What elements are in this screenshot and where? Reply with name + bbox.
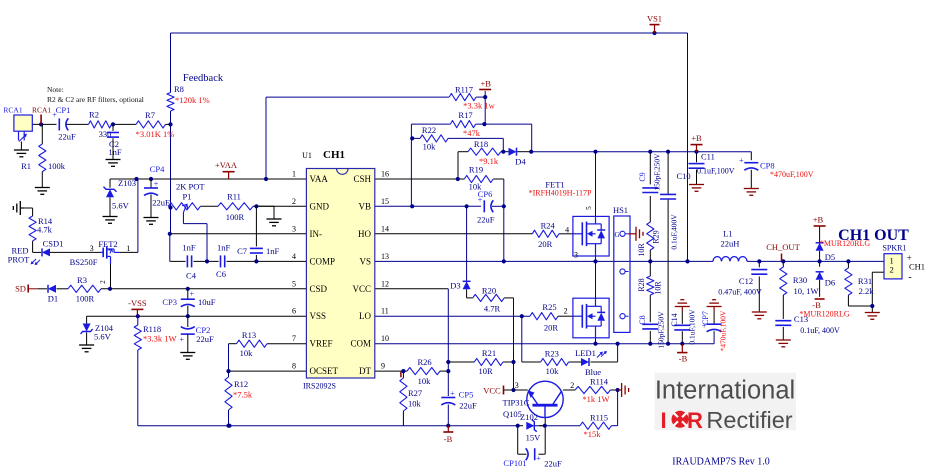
- wire FET2 drain to CSD row: [110, 264, 112, 289]
- wire +B flag vertical at R117: [484, 91, 486, 124]
- svg-text:R1: R1: [21, 161, 31, 171]
- svg-text:R28: R28: [637, 278, 646, 291]
- svg-text:2: 2: [292, 197, 296, 206]
- svg-text:2: 2: [570, 381, 574, 390]
- svg-text:R2: R2: [89, 110, 99, 120]
- svg-text:R118: R118: [143, 324, 161, 334]
- wire R114 right junction chassis R115: [610, 390, 617, 426]
- power flag -VSS: [128, 298, 147, 316]
- transistor FET1 lower MOSFET: [573, 298, 609, 338]
- power flag VCC: [483, 386, 503, 396]
- wire R118 VSS to rail: [137, 316, 139, 426]
- wire R17 row: [411, 124, 531, 206]
- svg-text:10k: 10k: [408, 399, 422, 409]
- svg-text:7: 7: [292, 334, 296, 343]
- svg-text:Feedback: Feedback: [183, 73, 224, 84]
- svg-text:+: +: [739, 156, 744, 165]
- wire VREF row R13: [229, 344, 307, 371]
- svg-text:20R: 20R: [538, 239, 553, 249]
- wire R28 C8 snubber chain: [649, 261, 651, 343]
- note RF filters text: [47, 85, 144, 104]
- svg-text:R20: R20: [482, 286, 496, 296]
- svg-text:R12: R12: [234, 379, 248, 389]
- svg-text:10R: 10R: [479, 366, 494, 376]
- resistor R27 10k: [400, 378, 422, 411]
- diode D4: [509, 148, 527, 167]
- svg-text:CH1: CH1: [909, 262, 925, 272]
- svg-text:R19: R19: [469, 165, 483, 175]
- svg-text:R22: R22: [422, 125, 436, 135]
- svg-text:Rectifier: Rectifier: [706, 407, 792, 433]
- svg-text:4.7k: 4.7k: [37, 225, 53, 235]
- svg-text:10, 1W: 10, 1W: [793, 286, 818, 296]
- svg-text:R114: R114: [590, 377, 609, 387]
- label U1 CH1: [302, 149, 345, 391]
- wire pot wiper to COMP row: [183, 213, 207, 262]
- wire CP5 branch on VCC vertical: [447, 362, 449, 426]
- resistor R13 10k: [237, 330, 268, 358]
- svg-text:CP7: CP7: [701, 311, 710, 325]
- wire VB to D3 vertical: [467, 206, 473, 298]
- svg-text:DT: DT: [359, 366, 371, 376]
- chassis ground at HS1: [629, 227, 644, 241]
- svg-text:R27: R27: [408, 388, 422, 398]
- svg-text:100R: 100R: [76, 294, 95, 304]
- wire CSD1 FET2 row: [33, 179, 138, 252]
- svg-text:+B: +B: [813, 215, 824, 225]
- resistor R3 100R: [68, 275, 101, 304]
- svg-text:+: +: [190, 290, 195, 299]
- svg-text:1nF: 1nF: [182, 243, 196, 253]
- inductor L1 22uH: [713, 229, 747, 262]
- zener Z104 5.6V: [81, 316, 114, 344]
- potentiometer P1 2K POT: [168, 182, 205, 213]
- label Feedback: [183, 73, 224, 84]
- svg-text:Z102: Z102: [520, 412, 538, 422]
- wire R27 branch: [401, 371, 404, 426]
- svg-text:*1k 1W: *1k 1W: [582, 394, 609, 404]
- capacitor C7 1nF: [237, 246, 279, 256]
- power flag +B at D5: [813, 215, 826, 227]
- svg-text:R: R: [687, 408, 703, 433]
- resistor R18 9.1k: [468, 139, 501, 166]
- svg-text:R18: R18: [474, 139, 488, 149]
- svg-text:HS1: HS1: [613, 205, 628, 215]
- svg-text:2: 2: [889, 264, 893, 274]
- svg-text:TIP31C: TIP31C: [503, 398, 530, 408]
- svg-text:BS250F: BS250F: [70, 257, 98, 267]
- svg-text:1: 1: [292, 170, 296, 179]
- chassis ground at R14: [13, 201, 24, 215]
- wire D5 D6 clamp branch: [819, 226, 821, 297]
- resistor R22 10k: [420, 125, 448, 152]
- resistor R17 47k: [450, 110, 480, 138]
- wire R20 to base vertical: [504, 298, 513, 390]
- svg-text:I: I: [660, 408, 666, 433]
- wire Z102 right lead: [539, 425, 545, 427]
- wire DT row pin9 R26: [375, 370, 449, 372]
- svg-text:15V: 15V: [526, 433, 542, 443]
- power flag +B at R117: [479, 79, 491, 90]
- capacitor CP4 22uF: [144, 164, 170, 217]
- resistor R19 10k: [464, 165, 493, 192]
- svg-text:FET2: FET2: [98, 239, 117, 249]
- svg-text:CH_OUT: CH_OUT: [766, 242, 800, 252]
- svg-text:VSS: VSS: [310, 311, 327, 321]
- svg-text:10k: 10k: [423, 142, 437, 152]
- svg-text:IRS2092S: IRS2092S: [303, 382, 336, 391]
- capacitor CP2 22uF: [180, 316, 214, 352]
- svg-text:R30: R30: [793, 275, 807, 285]
- svg-text:1nF: 1nF: [266, 246, 280, 256]
- capacitor CP6 22uF bootstrap: [477, 189, 495, 225]
- ground at R1: [35, 188, 50, 195]
- svg-text:+: +: [180, 335, 185, 344]
- svg-text:22uF: 22uF: [58, 132, 76, 142]
- wire C9 R29 snubber chain: [649, 152, 651, 262]
- svg-text:CP8: CP8: [760, 161, 775, 171]
- wire CP101 loop: [518, 426, 546, 455]
- svg-text:R13: R13: [242, 330, 256, 340]
- wire R8 feedback vertical to IN- and COMP: [170, 111, 186, 261]
- svg-text:C10: C10: [677, 171, 691, 181]
- svg-text:VB: VB: [358, 201, 371, 211]
- resistor R20 4.7R: [473, 286, 505, 314]
- svg-text:PROT: PROT: [8, 255, 31, 265]
- svg-text:3: 3: [515, 381, 519, 390]
- svg-text:2: 2: [99, 280, 107, 284]
- chassis ground at R114: [618, 383, 629, 397]
- svg-text:VAA: VAA: [310, 174, 329, 184]
- ground at GND pin2: [256, 206, 281, 226]
- wire FET1 source to VS row and FET2b drain: [595, 256, 597, 298]
- svg-text:-B: -B: [679, 354, 688, 364]
- wire OCSET row: [229, 370, 307, 372]
- svg-text:C4: C4: [186, 271, 197, 281]
- svg-text:R117: R117: [455, 85, 473, 95]
- svg-text:11: 11: [381, 307, 389, 316]
- svg-text:D5: D5: [825, 252, 835, 262]
- wire COM row pin10 to -B bus: [375, 334, 714, 344]
- svg-text:IRAUDAMP7S Rev 1.0: IRAUDAMP7S Rev 1.0: [672, 457, 770, 468]
- wire VB row pin15 CP6: [375, 206, 504, 261]
- svg-text:CSD: CSD: [310, 284, 328, 294]
- wire Q105 collector to R114: [563, 389, 575, 391]
- svg-text:4: 4: [292, 252, 296, 261]
- svg-text:150pF,250V: 150pF,250V: [657, 311, 666, 349]
- resistor R2 330: [89, 110, 112, 140]
- zener Z102 15V: [520, 412, 541, 443]
- svg-text:C12: C12: [739, 276, 753, 286]
- wire CSD row SD-D1-R3 to pin5: [28, 288, 306, 290]
- power flag +B at C11: [691, 133, 703, 152]
- svg-text:R7: R7: [145, 110, 155, 120]
- svg-text:0.1uF,400V: 0.1uF,400V: [670, 214, 679, 250]
- resistor R30 10 1W: [780, 267, 819, 296]
- svg-text:R115: R115: [590, 413, 608, 423]
- svg-text:22uF: 22uF: [152, 198, 170, 208]
- label CH1 OUT: [838, 227, 909, 244]
- diode D1: [48, 285, 58, 304]
- svg-text:22uF: 22uF: [477, 215, 495, 225]
- wire C14 branch: [681, 311, 683, 344]
- svg-text:*3.3k 1w: *3.3k 1w: [463, 101, 496, 111]
- svg-text:R17: R17: [458, 110, 472, 120]
- op-amp U1 IRS2092S class-D controller IC: [292, 169, 389, 379]
- svg-text:RCA1: RCA1: [32, 106, 51, 115]
- svg-text:C14: C14: [670, 313, 679, 326]
- svg-text:150pF,250V: 150pF,250V: [653, 153, 662, 191]
- capacitor C10 0.1uF 400V: [660, 171, 691, 250]
- svg-text:CP101: CP101: [503, 458, 526, 468]
- svg-text:Z103: Z103: [118, 178, 136, 188]
- power flag VS1: [647, 14, 662, 34]
- wire input row RCA to IN- node: [32, 123, 170, 125]
- svg-text:0.1uF,100V: 0.1uF,100V: [697, 167, 735, 176]
- wire LO row pin11 R25 to FET gate: [375, 315, 573, 317]
- svg-text:-B: -B: [812, 300, 821, 310]
- power flag -B at CP5: [443, 426, 453, 444]
- svg-text:14: 14: [381, 224, 389, 233]
- capacitor C11 0.1uF 100V: [689, 152, 735, 176]
- svg-text:5.6V: 5.6V: [94, 332, 112, 342]
- resistor R12 7.5k: [225, 377, 253, 410]
- wire C12 branch: [758, 261, 760, 311]
- wire FET1 drain to +B bus: [595, 152, 597, 217]
- svg-text:P1: P1: [183, 192, 192, 202]
- ground at SPKR return: [865, 313, 880, 320]
- svg-text:+: +: [450, 389, 455, 398]
- svg-text:C7: C7: [237, 246, 247, 256]
- svg-text:3: 3: [574, 251, 578, 260]
- resistor R118 3.3k 1W: [134, 324, 176, 350]
- svg-text:R11: R11: [227, 192, 241, 202]
- svg-text:CP6: CP6: [478, 189, 493, 199]
- svg-text:C8: C8: [638, 315, 647, 324]
- wire Q105 emitter-base bottom to rail: [544, 418, 546, 426]
- power flag CH_OUT: [766, 242, 800, 261]
- connector SPKR1: [882, 244, 925, 284]
- LED LED1 Blue: [575, 348, 606, 377]
- ground at RCA1: [14, 150, 29, 157]
- wire R12 to bottom rail: [228, 371, 230, 426]
- svg-text:*470uF,100V: *470uF,100V: [719, 310, 728, 351]
- svg-text:10k: 10k: [546, 366, 560, 376]
- svg-text:CH1 OUT: CH1 OUT: [838, 227, 909, 244]
- diode D6 MUR120RLG: [816, 272, 836, 288]
- wire C7 branch GND to COMP: [255, 206, 257, 261]
- svg-text:0.47uF, 400V: 0.47uF, 400V: [718, 288, 762, 297]
- svg-text:15: 15: [381, 197, 389, 206]
- svg-text:R23: R23: [545, 349, 559, 359]
- ground at C12: [752, 312, 767, 319]
- svg-text:R25: R25: [542, 302, 556, 312]
- ground above CP7: [707, 300, 722, 311]
- capacitor CP5 22uF: [441, 389, 477, 411]
- capacitor CP101 22uF: [503, 448, 562, 468]
- svg-text:C6: C6: [216, 269, 226, 279]
- svg-text:CP3: CP3: [162, 297, 177, 307]
- capacitor C9 150pF 250V: [638, 153, 662, 193]
- ground at CP8: [744, 189, 759, 196]
- svg-text:+: +: [536, 454, 541, 463]
- svg-text:C9: C9: [638, 172, 647, 181]
- svg-text:R21: R21: [482, 348, 496, 358]
- svg-text:2.2k: 2.2k: [859, 286, 875, 296]
- wire SPKR1 pin2 to ground: [872, 272, 884, 312]
- capacitor C13 0.1uF 400V: [775, 314, 840, 335]
- capacitor CP8 470uF 100V: [739, 156, 814, 179]
- wire VCC row pin12: [375, 289, 449, 362]
- svg-text:R3: R3: [77, 275, 87, 285]
- capacitor C8 150pF 250V: [638, 311, 666, 349]
- wire R21 row: [448, 361, 513, 363]
- svg-text:5.6V: 5.6V: [112, 201, 130, 211]
- svg-text:D3: D3: [450, 281, 460, 291]
- svg-text:6: 6: [292, 307, 296, 316]
- resistor R31 2.2k: [845, 268, 874, 296]
- svg-text:VREF: VREF: [310, 339, 333, 349]
- svg-text:*7.5k: *7.5k: [233, 390, 253, 400]
- svg-text:R31: R31: [858, 276, 872, 286]
- svg-text:R24: R24: [541, 221, 556, 231]
- wire VSS row: [87, 315, 307, 317]
- svg-text:2: 2: [564, 307, 568, 316]
- title IRAUDAMP7S Rev 1.0: [672, 457, 770, 468]
- svg-text:VCC: VCC: [483, 386, 501, 396]
- resistor R24 20R: [532, 221, 569, 250]
- ground at C11: [689, 185, 704, 192]
- svg-text:0.1uF, 400V: 0.1uF, 400V: [800, 326, 840, 335]
- wire R22 row: [411, 138, 503, 151]
- svg-text:9: 9: [381, 362, 385, 371]
- svg-text:CH1: CH1: [323, 149, 345, 161]
- svg-text:+B: +B: [691, 133, 702, 143]
- wire feedback top from R8 to VS1 corner: [171, 33, 688, 261]
- svg-text:CP4: CP4: [150, 164, 165, 174]
- ground at CP4: [144, 218, 159, 225]
- capacitor C4 1nF: [182, 243, 196, 281]
- svg-text:22uF: 22uF: [196, 334, 214, 344]
- svg-text:SPKR1: SPKR1: [882, 244, 906, 253]
- svg-text:10R: 10R: [654, 281, 663, 295]
- power flag +VAA: [215, 160, 238, 179]
- svg-text:5: 5: [585, 206, 593, 210]
- svg-text:5: 5: [292, 279, 296, 288]
- capacitor C12 0.47uF 400V: [718, 270, 767, 297]
- resistor R117 3.3k 1w: [449, 85, 495, 111]
- resistor R114 1k 1W: [575, 377, 610, 405]
- svg-text:1: 1: [126, 244, 130, 253]
- transistor Q105 TIP31C: [503, 381, 575, 419]
- wire VS row pin13 to L1: [375, 260, 713, 262]
- svg-text:*47k: *47k: [463, 128, 481, 138]
- wire VAA feed row y=97 from IN vertical to R117: [266, 97, 449, 179]
- svg-text:CP5: CP5: [459, 390, 474, 400]
- svg-text:-VSS: -VSS: [128, 298, 147, 308]
- wire VAA row: [110, 178, 306, 180]
- transistor FET1 upper MOSFET: [573, 206, 609, 260]
- svg-text:VCC: VCC: [352, 284, 371, 294]
- zener Z103 5.6V: [104, 178, 136, 216]
- svg-text:*15k: *15k: [584, 429, 602, 439]
- svg-text:13: 13: [381, 252, 389, 261]
- svg-text:*120k 1%: *120k 1%: [175, 95, 210, 105]
- svg-text:CSH: CSH: [353, 174, 371, 184]
- svg-text:D1: D1: [48, 294, 58, 304]
- capacitor CP1 22uF: [52, 105, 76, 142]
- svg-text:*MUR120RLG: *MUR120RLG: [799, 310, 849, 319]
- wire Z102 left lead: [518, 425, 523, 427]
- International Rectifier logo: [654, 373, 796, 433]
- capacitor C6 1nF: [216, 243, 230, 279]
- wire R30 C13 branch: [782, 261, 784, 339]
- svg-text:8: 8: [292, 362, 296, 371]
- svg-text:LO: LO: [359, 311, 371, 321]
- resistor R21 10R: [474, 348, 503, 376]
- svg-text:22uH: 22uH: [720, 239, 739, 249]
- svg-text:22uF: 22uF: [544, 459, 562, 469]
- svg-text:LED1: LED1: [575, 348, 596, 358]
- svg-text:VS: VS: [359, 256, 371, 266]
- wire R23 LED row: [569, 344, 618, 362]
- capacitor CP7 470uF 100V: [701, 310, 728, 351]
- wire output row L1 to SPKR1: [747, 260, 884, 262]
- svg-text:3: 3: [90, 244, 94, 253]
- ground at Z103: [103, 217, 118, 224]
- wire R117 leads: [476, 96, 485, 98]
- label FET1 IRFH4019H-117P: [529, 180, 592, 198]
- power flag -B at C14: [677, 344, 687, 364]
- svg-text:+: +: [154, 179, 159, 188]
- svg-text:R8: R8: [174, 84, 184, 94]
- svg-text:COM: COM: [350, 339, 371, 349]
- resistor R115 15k: [580, 413, 611, 440]
- wire R31 branch: [848, 261, 872, 306]
- wire VCC flag to Q105 base: [504, 389, 528, 391]
- svg-text:L1: L1: [723, 229, 732, 239]
- power flag SD: [15, 284, 28, 294]
- svg-text:HO: HO: [358, 229, 371, 239]
- power flag -B at D6: [799, 299, 849, 319]
- svg-text:-: -: [908, 272, 911, 283]
- svg-text:R2 & C2 are RF filters, option: R2 & C2 are RF filters, optional: [47, 95, 144, 104]
- heatsink HS1: [613, 205, 630, 332]
- wire C10 bulk cap vertical: [667, 152, 669, 344]
- resistor R11 100R: [218, 192, 253, 223]
- svg-text:22uF: 22uF: [459, 401, 477, 411]
- svg-text:G: G: [614, 231, 619, 239]
- svg-text:GND: GND: [310, 201, 330, 211]
- wire COMP row with C4 C6 in series: [193, 260, 306, 262]
- svg-text:0.1uF,100V: 0.1uF,100V: [688, 309, 697, 345]
- svg-text:*3.3k 1W: *3.3k 1W: [143, 334, 177, 344]
- diode D5 MUR120RLG: [816, 239, 871, 262]
- svg-text:*470uF,100V: *470uF,100V: [770, 170, 814, 179]
- svg-text:CP1: CP1: [56, 105, 71, 115]
- svg-text:OCSET: OCSET: [310, 366, 339, 376]
- ground at C13: [776, 340, 791, 347]
- resistor R29 10R: [637, 222, 661, 257]
- svg-text:RCA1: RCA1: [3, 106, 22, 115]
- capacitor C14 0.1uF 100V: [670, 309, 697, 345]
- svg-text:International: International: [655, 377, 795, 405]
- svg-text:10: 10: [381, 334, 389, 343]
- wire R14 chassis branch: [24, 208, 32, 252]
- diode CSD1 red LED: [8, 239, 64, 265]
- resistor R1 100k: [21, 124, 66, 187]
- svg-text:2K POT: 2K POT: [176, 182, 205, 192]
